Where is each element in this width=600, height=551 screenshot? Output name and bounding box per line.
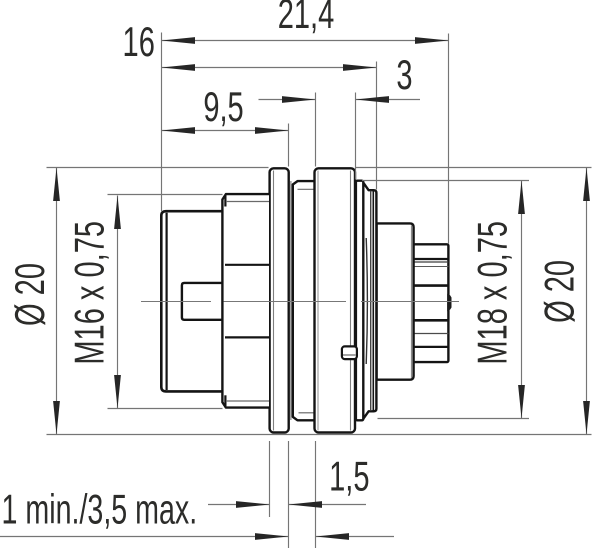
arrows 3: [282, 96, 316, 103]
arrows 1min/3,5max: [255, 533, 289, 540]
dimension line 1min/3,5max: [0, 536, 289, 538]
centerline: [141, 301, 211, 303]
dimension line M18: [521, 181, 523, 419]
extension line flange right bottom: [288, 441, 290, 548]
extension line M18 top: [362, 180, 529, 182]
extension line big disc left: [315, 93, 317, 167]
extension line M16 bottom: [108, 408, 223, 410]
big central disc: [315, 168, 356, 432]
tab on big disc: [342, 346, 357, 359]
svg-text:1,5: 1,5: [329, 453, 369, 499]
extension line flange disc right: [288, 124, 290, 167]
extension line front face: [161, 33, 163, 212]
dimension line M16: [117, 196, 119, 409]
arrows 1,5: [236, 501, 270, 508]
center pin: [182, 283, 223, 320]
arrows 21,4: [162, 37, 196, 44]
extension line big disc right: [355, 93, 357, 180]
contact block (rear solder contacts): [413, 244, 448, 362]
center contact nub: [447, 294, 451, 312]
ring behind big disc (M18 collar): [356, 181, 363, 421]
dimension line dia20 left: [56, 168, 58, 435]
svg-text:3: 3: [396, 52, 412, 98]
svg-text:Ø 20: Ø 20: [537, 260, 583, 323]
extension line M18 bottom: [378, 418, 530, 420]
svg-text:9,5: 9,5: [203, 84, 243, 130]
extension line dia20 top left: [47, 167, 269, 169]
dimension line 21,4: [162, 40, 449, 42]
dimension line dia20 right: [586, 168, 588, 435]
dimension line 1,5: [208, 504, 270, 506]
extension line M16 top: [108, 194, 223, 196]
dimension line 9,5: [162, 130, 289, 132]
barrel between discs: [290, 181, 292, 420]
svg-text:21,4: 21,4: [278, 0, 335, 37]
dimension line 3: [259, 99, 316, 101]
arrows dia20 left: [53, 168, 60, 202]
svg-text:Ø 20: Ø 20: [7, 263, 53, 326]
arrows dia20 right: [583, 168, 590, 202]
extension line flange left bottom: [269, 441, 271, 517]
front cylinder: [161, 211, 223, 391]
hex nut section: [222, 194, 269, 408]
M18 thread section: [362, 181, 376, 421]
extension line 16 right: [376, 62, 378, 190]
extension line dia20 top right: [356, 167, 592, 169]
arrows M16: [114, 196, 121, 230]
svg-text:1 min./3,5 max.: 1 min./3,5 max.: [2, 486, 198, 533]
arrows M18: [518, 181, 525, 215]
svg-text:M18 x 0,75: M18 x 0,75: [469, 221, 515, 365]
svg-text:M16 x 0,75: M16 x 0,75: [67, 221, 113, 365]
rear housing: [377, 223, 414, 379]
svg-text:16: 16: [123, 19, 155, 65]
arrows 16: [162, 64, 196, 71]
flange washer disc: [270, 168, 289, 432]
extension line dia20 bottom: [47, 434, 592, 436]
extension line rear end: [448, 34, 450, 244]
dimension line 16: [162, 67, 377, 69]
arrows 9,5: [162, 127, 196, 134]
extension line big disc left bottom: [315, 441, 317, 548]
